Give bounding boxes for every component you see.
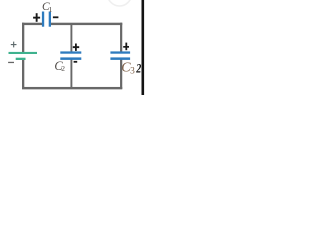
svg-text:1: 1 bbox=[49, 5, 53, 14]
svg-text:3: 3 bbox=[130, 66, 135, 76]
svg-text:2: 2 bbox=[61, 64, 65, 73]
svg-text:2: 2 bbox=[136, 61, 142, 75]
